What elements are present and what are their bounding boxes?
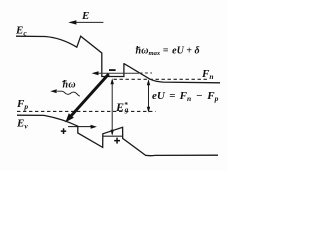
svg-text:E: E (81, 10, 89, 22)
thick recombination arrow (65, 74, 108, 122)
conduction band E_c (16, 36, 220, 83)
F_n dashed level (114, 78, 208, 80)
eU double arrow (147, 79, 150, 113)
F_p dashed level (17, 110, 156, 112)
valence band E_v (17, 115, 218, 155)
minus sign (electrons) (109, 69, 116, 71)
E field arrow (68, 20, 103, 24)
svg-text:hωmax= eU + δ: hωmax= eU + δ (136, 45, 200, 57)
right arrow (hole injection) (68, 125, 97, 129)
hbar stroke of h (136, 47, 140, 48)
E_g* double arrow (111, 78, 114, 135)
wavy photon arrow (50, 89, 80, 96)
plus sign left (61, 128, 66, 134)
left arrow over electron well (92, 71, 152, 75)
svg-text:eU = Fn − Fp: eU = Fn − Fp (152, 90, 219, 103)
plus sign right (114, 138, 120, 144)
hole well floor line (103, 135, 123, 137)
